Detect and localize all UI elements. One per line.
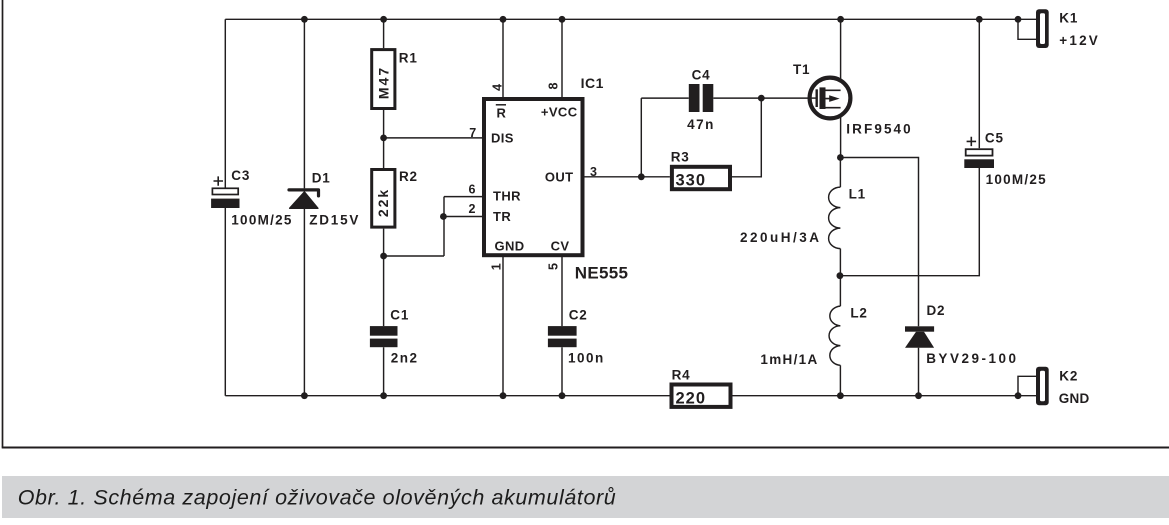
junction top rail at T1	[837, 16, 844, 23]
wire bottom GND rail left of R4	[225, 395, 669, 397]
T1 source drain body leads	[826, 90, 841, 107]
capacitor C5 electrolytic	[964, 149, 994, 168]
svg-text:R: R	[497, 106, 507, 121]
svg-text:GND: GND	[495, 239, 525, 254]
wire top +12V rail	[225, 18, 1036, 20]
svg-text:R1: R1	[399, 51, 418, 66]
junction bottom rail at C2	[559, 392, 566, 399]
wire pin3 OUT	[585, 176, 670, 178]
connector K2 body	[1036, 367, 1049, 406]
wire L1 bottom to node B	[839, 249, 841, 276]
junction top rail at C5	[976, 16, 983, 23]
svg-text:L2: L2	[850, 306, 867, 321]
wire C4 branch left vertical	[640, 98, 642, 177]
wire node B to C5 bottom	[840, 168, 979, 276]
connector K1 slot	[1040, 13, 1045, 44]
wire K1 stubs	[1018, 19, 1036, 39]
svg-text:K1: K1	[1059, 11, 1078, 26]
wire D2 bottom	[918, 348, 920, 396]
zener diode D1 cathode bar	[289, 190, 319, 196]
svg-text:2: 2	[468, 202, 475, 216]
svg-text:NE555: NE555	[575, 264, 628, 283]
svg-text:220uH/3A: 220uH/3A	[740, 230, 822, 245]
wire pin4	[502, 19, 504, 97]
wire L2 bottom	[839, 365, 841, 395]
junction bottom rail at K2	[1015, 392, 1022, 399]
page frame left border	[2, 0, 4, 448]
node B L1-L2 junction	[837, 272, 844, 279]
svg-text:47n: 47n	[687, 117, 715, 132]
wire pin2 TR	[443, 216, 482, 218]
junction gate node	[758, 95, 765, 102]
wire gate node to T1	[761, 97, 808, 99]
wire T1 drain column	[840, 19, 842, 157]
svg-text:ZD15V: ZD15V	[309, 213, 360, 228]
capacitor C2 plates	[548, 326, 577, 347]
svg-text:220: 220	[676, 390, 707, 408]
T1 channel bar	[820, 87, 826, 109]
pin label R overline	[496, 104, 506, 106]
diode D2 cathode bar	[905, 326, 934, 331]
wire pin1	[502, 257, 504, 396]
svg-text:D1: D1	[312, 171, 331, 186]
svg-text:C2: C2	[569, 308, 588, 323]
wire K2 stubs	[1018, 376, 1036, 395]
page frame bottom rule	[2, 447, 1169, 449]
T1 gate bar	[816, 89, 818, 107]
svg-text:T1: T1	[793, 62, 810, 77]
svg-text:GND: GND	[1059, 391, 1090, 406]
svg-text:OUT: OUT	[545, 170, 574, 185]
junction top rail at pin4	[500, 16, 507, 23]
svg-text:IC1: IC1	[581, 75, 604, 91]
svg-text:DIS: DIS	[491, 131, 514, 146]
svg-text:K2: K2	[1059, 369, 1078, 384]
svg-text:C4: C4	[692, 68, 711, 83]
capacitor C1 plates	[370, 326, 398, 347]
svg-text:BYV29-100: BYV29-100	[926, 351, 1018, 366]
svg-text:4: 4	[491, 84, 505, 91]
svg-text:THR: THR	[493, 189, 521, 204]
diode D2 triangle	[905, 332, 934, 348]
svg-text:C1: C1	[390, 308, 409, 323]
C3 plus polarity	[214, 176, 224, 185]
junction bottom rail at pin1	[500, 392, 507, 399]
junction top rail at K1	[1015, 16, 1022, 23]
junction bottom rail at C1	[380, 392, 387, 399]
svg-text:Obr. 1. Schéma zapojení oživov: Obr. 1. Schéma zapojení oživovače olověn…	[18, 486, 617, 510]
svg-text:L1: L1	[849, 187, 866, 202]
svg-text:C5: C5	[985, 131, 1004, 146]
svg-text:5: 5	[547, 263, 561, 270]
wire C4 left horizontal	[641, 97, 689, 99]
wire bottom GND rail right of R4	[733, 395, 1037, 397]
wire R3 right to gate node vertical	[732, 98, 761, 177]
junction top rail at R1	[380, 16, 387, 23]
svg-text:1mH/1A: 1mH/1A	[760, 352, 818, 367]
wire node A to D2 branch	[840, 158, 918, 327]
transistor T1 MOSFET circle	[810, 78, 851, 119]
wire pin7 DIS	[384, 137, 482, 139]
junction bottom rail at L2	[837, 392, 844, 399]
svg-text:R4: R4	[672, 368, 691, 383]
connector K2 slot	[1040, 371, 1045, 402]
resistor R2	[372, 170, 395, 228]
wire C4 right horizontal	[713, 97, 761, 99]
svg-text:TR: TR	[493, 209, 511, 224]
wire L1 top stub	[839, 158, 841, 188]
svg-text:100M/25: 100M/25	[231, 213, 292, 228]
svg-text:3: 3	[590, 165, 597, 179]
svg-text:1: 1	[490, 263, 504, 270]
resistor R4	[672, 385, 731, 407]
T1 body arrow	[829, 95, 840, 102]
svg-text:R3: R3	[671, 150, 690, 165]
junction TR node	[440, 213, 447, 220]
junction feedback node below R2	[380, 253, 387, 260]
wire feedback vertical	[443, 197, 445, 256]
junction bottom rail at D2	[915, 392, 922, 399]
junction top rail at pin8	[559, 16, 566, 23]
connector K1 body	[1036, 9, 1049, 48]
svg-text:100M/25: 100M/25	[986, 172, 1047, 187]
junction top rail at D1	[301, 16, 308, 23]
svg-text:R2: R2	[399, 169, 418, 184]
inductor L2 body	[829, 306, 840, 365]
wire feedback horizontal	[384, 255, 444, 257]
inductor L1 body	[829, 187, 841, 249]
wire pin6 THR	[444, 196, 482, 198]
capacitor C4 plates	[689, 84, 714, 112]
C5 plus polarity	[967, 137, 977, 146]
svg-text:330: 330	[676, 172, 707, 190]
resistor R1	[372, 50, 395, 109]
node A T1 drain junction	[837, 154, 844, 161]
svg-text:6: 6	[468, 183, 475, 197]
svg-text:+VCC: +VCC	[541, 105, 578, 120]
junction R1-R2 pin7 node	[380, 135, 387, 142]
wire pin5 to C2	[561, 257, 563, 396]
svg-text:M47: M47	[375, 66, 391, 99]
svg-text:2n2: 2n2	[391, 351, 419, 366]
svg-text:+12V: +12V	[1059, 33, 1100, 48]
junction OUT node at C4 branch	[638, 173, 645, 180]
svg-text:100n: 100n	[568, 351, 605, 366]
junction bottom rail at D1	[301, 392, 308, 399]
svg-text:IRF9540: IRF9540	[846, 122, 912, 137]
wire D1 branch vertical	[303, 19, 305, 395]
wire pin8	[561, 19, 563, 97]
wire L2 top stub	[839, 276, 841, 306]
caption grey bar	[2, 476, 1169, 518]
svg-text:7: 7	[469, 126, 476, 140]
svg-text:D2: D2	[927, 303, 946, 318]
zener diode D1 triangle	[290, 192, 318, 208]
resistor R3	[672, 167, 730, 189]
capacitor C3 electrolytic	[211, 188, 239, 208]
svg-text:8: 8	[547, 82, 561, 89]
svg-text:CV: CV	[551, 239, 570, 254]
IC1 555 timer body	[484, 99, 583, 255]
wire C3 branch vertical	[224, 19, 226, 395]
T1 gate lead into circle	[808, 97, 817, 99]
wire C5 top	[978, 19, 980, 148]
wire R1 R2 C1 column	[383, 19, 385, 395]
svg-text:C3: C3	[231, 168, 250, 183]
svg-text:22k: 22k	[375, 188, 391, 217]
